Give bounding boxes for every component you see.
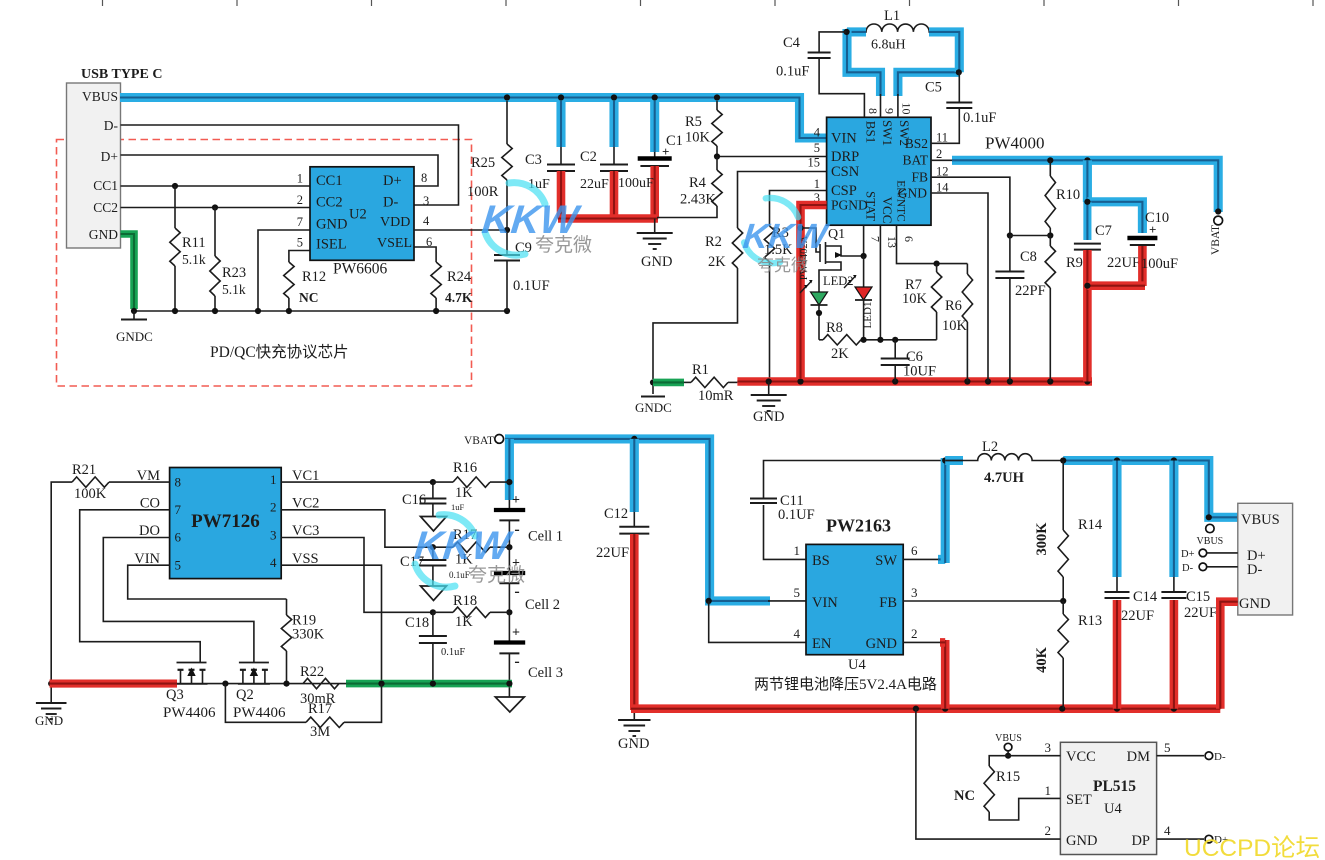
- wire GND red from connector: [1220, 602, 1238, 709]
- inductor L1 6.8uH: [847, 8, 938, 53]
- svg-text:D-: D-: [1182, 563, 1194, 574]
- resistor R9: [1045, 236, 1083, 382]
- resistor R8 2K: [819, 320, 937, 362]
- svg-text:C16: C16: [402, 492, 426, 508]
- wire blue SW1 branch: [847, 29, 881, 117]
- svg-text:10: 10: [900, 103, 914, 115]
- svg-text:CSN: CSN: [831, 164, 860, 180]
- svg-text:PW6606: PW6606: [333, 261, 388, 278]
- svg-text:R24: R24: [447, 269, 472, 285]
- capacitor C3 1uF: [525, 101, 575, 219]
- svg-text:10K: 10K: [685, 130, 711, 146]
- svg-text:+: +: [512, 493, 520, 508]
- svg-text:C12: C12: [604, 506, 628, 522]
- capacitor C18 0.1uF: [405, 612, 465, 683]
- svg-text:GND: GND: [618, 736, 649, 752]
- wire main ground rail (red): [737, 378, 1092, 384]
- svg-text:R25: R25: [471, 155, 495, 171]
- resistor R3 1.5K: [764, 225, 793, 379]
- resistor R11 5.1k: [170, 186, 206, 311]
- wire VC1 row: [281, 479, 512, 485]
- wire VSS route to pack minus: [281, 565, 381, 683]
- svg-text:R13: R13: [1078, 613, 1102, 629]
- wire EN/NTC pin6 to R7/R6: [897, 225, 968, 267]
- capacitor C8 22PF: [995, 236, 1045, 382]
- svg-text:VCC: VCC: [880, 197, 895, 224]
- svg-text:VCC: VCC: [1066, 749, 1096, 765]
- svg-text:R4: R4: [689, 175, 707, 191]
- svg-text:2.43K: 2.43K: [680, 192, 716, 208]
- svg-text:PW4000: PW4000: [985, 134, 1045, 153]
- wire GND pin2 red drop: [903, 640, 945, 709]
- svg-text:8: 8: [175, 474, 182, 489]
- capacitor C6 10UF: [881, 340, 936, 382]
- svg-text:3: 3: [911, 585, 918, 600]
- svg-text:22uF: 22uF: [580, 177, 609, 192]
- resistor R23 5.1k: [210, 208, 246, 312]
- svg-text:VBUS: VBUS: [82, 89, 118, 104]
- svg-text:3: 3: [270, 527, 277, 542]
- svg-text:R9: R9: [1066, 255, 1083, 271]
- svg-text:DRP: DRP: [831, 149, 859, 165]
- svg-text:D-: D-: [383, 195, 398, 211]
- svg-text:1K: 1K: [455, 485, 473, 501]
- resistor R10: [1045, 160, 1080, 238]
- wire STAT pin7 down: [861, 225, 867, 259]
- resistor R19 330K: [281, 599, 324, 684]
- capacitor C4 0.1uF (bootstrap BS1): [776, 32, 864, 117]
- svg-text:Q3: Q3: [166, 687, 184, 703]
- svg-text:CC2: CC2: [316, 195, 343, 211]
- svg-text:VC3: VC3: [292, 523, 319, 539]
- wire blue SW2 branch: [898, 72, 959, 117]
- svg-text:DO: DO: [139, 523, 160, 539]
- svg-text:6: 6: [902, 236, 916, 242]
- svg-text:2K: 2K: [708, 254, 726, 270]
- svg-text:11: 11: [936, 131, 948, 145]
- wire GND (green) from USB to GNDC: [121, 234, 135, 309]
- svg-text:FB: FB: [911, 170, 928, 185]
- svg-text:0.1uF: 0.1uF: [963, 110, 996, 126]
- wire VIN to R19: [128, 565, 287, 599]
- svg-text:-: -: [514, 653, 519, 670]
- capacitor C14 22UF: [1105, 461, 1158, 709]
- svg-text:10K: 10K: [942, 318, 968, 334]
- svg-text:STAT: STAT: [864, 191, 879, 221]
- svg-text:GND: GND: [35, 713, 63, 728]
- svg-text:22PF: 22PF: [1015, 283, 1046, 299]
- svg-text:C14: C14: [1133, 589, 1158, 605]
- svg-text:U4: U4: [848, 657, 866, 673]
- LED LED1 (red): [844, 256, 874, 340]
- svg-text:GND: GND: [641, 254, 672, 270]
- svg-text:D+: D+: [1181, 549, 1195, 560]
- svg-text:6.8uH: 6.8uH: [871, 38, 906, 53]
- svg-text:22UF: 22UF: [1184, 605, 1217, 621]
- resistor R22 30mR: [300, 664, 339, 707]
- svg-text:Cell 1: Cell 1: [528, 529, 563, 545]
- wire blue nub at L2 left: [945, 456, 963, 465]
- svg-text:D-: D-: [1214, 751, 1226, 763]
- svg-text:EN: EN: [812, 636, 832, 652]
- svg-text:10mR: 10mR: [698, 388, 734, 404]
- svg-text:GND: GND: [89, 227, 118, 242]
- wire VBUS net (blue bus): [120, 98, 827, 139]
- svg-text:4.7UH: 4.7UH: [984, 470, 1025, 486]
- wire DRP pin5 from R5/R4 node: [714, 153, 827, 159]
- wire PW6606 GND pin7 to ground rail: [258, 230, 310, 311]
- svg-text:2: 2: [936, 147, 942, 161]
- terminal VBUS for PL515: [995, 733, 1022, 759]
- svg-text:EN/NTC: EN/NTC: [895, 180, 907, 222]
- svg-text:22UF: 22UF: [596, 545, 629, 561]
- svg-text:D-: D-: [104, 118, 119, 133]
- op-chip U4 PW2163: [754, 516, 937, 694]
- svg-text:PW4406: PW4406: [163, 705, 216, 721]
- capacitor C10 100uF (polarized): [1084, 210, 1178, 289]
- svg-text:0.1UF: 0.1UF: [778, 507, 815, 523]
- resistor R1 10mR (shunt): [684, 362, 737, 404]
- svg-text:VBUS: VBUS: [1197, 536, 1224, 547]
- battery Cell 1: [494, 493, 563, 545]
- svg-text:R23: R23: [222, 265, 246, 281]
- svg-text:VIN: VIN: [831, 131, 857, 147]
- svg-text:PW7126: PW7126: [191, 511, 260, 532]
- svg-text:KKW: KKW: [412, 524, 515, 568]
- transistor Q1 PW4402A: [799, 227, 864, 280]
- svg-text:PW4406: PW4406: [233, 705, 286, 721]
- svg-text:GND: GND: [1066, 833, 1097, 849]
- svg-text:SET: SET: [1066, 792, 1092, 808]
- svg-text:3: 3: [1045, 740, 1052, 755]
- svg-text:1: 1: [814, 177, 820, 191]
- svg-text:GNDC: GNDC: [635, 400, 672, 415]
- svg-text:D+: D+: [383, 173, 402, 189]
- svg-text:5: 5: [297, 236, 303, 250]
- svg-text:+: +: [1149, 222, 1156, 237]
- svg-text:0.1UF: 0.1UF: [513, 278, 550, 294]
- op-chip U6 PL515: [1045, 740, 1172, 855]
- wire green sense link: [653, 379, 684, 387]
- watermark KKW 1: [480, 183, 592, 256]
- ground GND at rail: [751, 382, 787, 426]
- svg-text:6: 6: [175, 530, 182, 545]
- svg-text:R2: R2: [705, 234, 722, 250]
- battery Cell 3: [494, 612, 563, 683]
- svg-text:SW: SW: [875, 553, 897, 569]
- svg-text:1K: 1K: [455, 614, 473, 630]
- svg-text:3: 3: [423, 194, 429, 208]
- wire battery stack vertical (blue top): [505, 439, 514, 500]
- ground GND under C1: [637, 219, 673, 271]
- svg-text:R16: R16: [453, 460, 477, 476]
- wire D+ to PW6606 pin8: [121, 155, 439, 186]
- svg-text:R1: R1: [692, 362, 709, 378]
- svg-text:8: 8: [421, 171, 427, 185]
- terminal VBUS tap: [1197, 524, 1224, 547]
- capacitor C9 0.1UF: [494, 230, 550, 311]
- svg-text:CC1: CC1: [316, 173, 343, 189]
- transistor Q3 PW4406: [163, 663, 216, 722]
- svg-text:4.7K: 4.7K: [445, 290, 473, 305]
- capacitor C17 0.1uF: [400, 547, 470, 600]
- svg-text:U2: U2: [349, 207, 367, 223]
- capacitor C5 0.1uF (bootstrap BS2): [925, 72, 996, 143]
- svg-text:Q2: Q2: [236, 687, 254, 703]
- resistor R17b 3M: [225, 684, 381, 740]
- caption PD/QC快充协议芯片: [210, 343, 349, 361]
- svg-text:CC1: CC1: [93, 178, 118, 193]
- svg-text:0.1uF: 0.1uF: [441, 647, 465, 658]
- svg-text:PGND: PGND: [831, 198, 868, 213]
- svg-text:+: +: [662, 144, 669, 159]
- svg-text:R8: R8: [826, 320, 843, 336]
- watermark KKW 2: [741, 198, 832, 275]
- wire green battery minus link: [346, 681, 513, 687]
- svg-text:2: 2: [297, 193, 303, 207]
- svg-text:NC: NC: [954, 788, 975, 804]
- svg-text:PW2163: PW2163: [826, 516, 891, 536]
- op-chip U2 PW6606: [297, 167, 433, 278]
- svg-text:VBAT: VBAT: [1210, 225, 1222, 255]
- svg-text:BS: BS: [812, 553, 830, 569]
- wire CC1 to PW6606 pin1: [121, 183, 311, 189]
- svg-text:9: 9: [883, 108, 897, 114]
- svg-text:GND: GND: [753, 409, 784, 425]
- svg-text:VBUS: VBUS: [995, 733, 1022, 744]
- svg-text:VDD: VDD: [380, 215, 410, 230]
- junction dots on VBUS bus: [504, 94, 720, 100]
- resistor R18 1K: [433, 593, 510, 630]
- svg-text:C3: C3: [525, 152, 542, 168]
- svg-text:2K: 2K: [831, 346, 849, 362]
- ground triangle under Cell 3: [495, 684, 524, 712]
- svg-text:Q1: Q1: [828, 227, 845, 242]
- wire VC2 route: [281, 510, 512, 551]
- svg-text:C15: C15: [1186, 589, 1210, 605]
- capacitor C1 100uF (polarized): [618, 101, 683, 219]
- svg-text:R17: R17: [308, 701, 332, 717]
- svg-text:BAT: BAT: [902, 153, 928, 168]
- svg-text:KKW: KKW: [741, 217, 832, 256]
- LED LED2 (green): [800, 274, 854, 340]
- svg-text:Cell 2: Cell 2: [525, 597, 560, 613]
- wire VIN stub PW2163: [768, 600, 806, 602]
- svg-text:DM: DM: [1127, 749, 1150, 765]
- svg-text:0.1uF: 0.1uF: [449, 570, 470, 580]
- transistor Q2 PW4406: [233, 663, 286, 722]
- wire D- to PW6606 pin3: [121, 125, 459, 205]
- wire blue L1 right to C5 node: [929, 32, 962, 76]
- wire DO to Q2 gate: [103, 538, 254, 663]
- wire blue BAT branch to C7/C10: [1084, 160, 1142, 240]
- svg-text:R21: R21: [72, 462, 96, 478]
- svg-text:Cell 3: Cell 3: [528, 665, 563, 681]
- terminal D+ input: [1181, 549, 1238, 560]
- capacitor C11 0.1UF + BS loop: [750, 461, 944, 560]
- svg-text:VSEL: VSEL: [377, 236, 412, 251]
- svg-text:15: 15: [808, 156, 821, 170]
- wire SW blue riser: [903, 457, 948, 563]
- capacitor C16 1uF: [402, 482, 465, 531]
- ground GNDC: [116, 311, 153, 344]
- resistor R4 2.43K: [657, 157, 722, 218]
- wire FB row: [903, 598, 1066, 604]
- wire CC2 to PW6606 pin2: [121, 204, 311, 210]
- svg-text:22UF: 22UF: [1107, 255, 1140, 271]
- svg-text:1: 1: [297, 172, 303, 186]
- svg-text:330K: 330K: [292, 627, 325, 643]
- svg-text:C18: C18: [405, 615, 429, 631]
- resistor R25 100R: [467, 101, 512, 230]
- svg-text:R22: R22: [300, 664, 324, 680]
- connector J2 VBUS output: [1238, 503, 1293, 615]
- svg-text:100uF: 100uF: [618, 176, 654, 191]
- svg-text:300K: 300K: [1034, 522, 1050, 556]
- wire PW6606 VDD pin4 to R25 node: [414, 227, 510, 233]
- svg-text:DP: DP: [1131, 833, 1150, 849]
- capacitor C2 22uF: [580, 101, 628, 219]
- svg-text:4: 4: [270, 555, 277, 570]
- svg-text:R11: R11: [182, 235, 206, 251]
- svg-text:7: 7: [297, 215, 303, 229]
- svg-text:夸克微: 夸克微: [757, 256, 808, 275]
- svg-text:4: 4: [1164, 823, 1171, 838]
- svg-text:USB TYPE C: USB TYPE C: [81, 67, 162, 82]
- wire ground rail (GNDC net): [131, 308, 510, 314]
- svg-text:UCCPD论坛: UCCPD论坛: [1184, 834, 1320, 860]
- svg-text:R5: R5: [685, 114, 702, 130]
- terminal VBAT (battery stack top): [464, 435, 513, 448]
- wire B- bottom rail segments: [50, 681, 349, 687]
- svg-text:5: 5: [794, 585, 801, 600]
- resistor R24 4.7K: [414, 247, 473, 311]
- resistor R12 NC: [284, 251, 326, 312]
- wire blue VBUS output: [1060, 457, 1238, 520]
- svg-text:5: 5: [175, 557, 182, 572]
- svg-text:L2: L2: [982, 439, 998, 455]
- svg-text:+: +: [512, 626, 520, 641]
- wire VC3 route: [281, 538, 512, 616]
- wire VCC pin13 down: [877, 225, 883, 343]
- svg-text:夸克微: 夸克微: [468, 564, 525, 586]
- svg-text:2: 2: [911, 626, 918, 641]
- wire PGND pin3 (red) down to rail: [797, 205, 826, 379]
- capacitor C7 22UF: [1074, 223, 1140, 382]
- terminal VBAT: [1210, 216, 1223, 255]
- node GNDC (sense ground): [635, 379, 672, 415]
- wire CSP pin1 to R3: [770, 191, 827, 227]
- svg-text:6: 6: [426, 235, 432, 249]
- resistor R2 2K: [653, 228, 743, 379]
- svg-text:5.1k: 5.1k: [182, 252, 206, 267]
- resistor R21 100K: [51, 462, 169, 684]
- wire DP to D+ terminal: [1157, 834, 1229, 846]
- svg-text:3M: 3M: [310, 724, 330, 740]
- resistor R17 1K: [433, 527, 510, 568]
- ruler tick marks: [103, 0, 1314, 6]
- battery Cell 2: [494, 547, 560, 613]
- svg-text:CC2: CC2: [93, 200, 118, 215]
- svg-text:R6: R6: [945, 298, 962, 314]
- capacitor C12 22UF: [596, 439, 649, 710]
- svg-text:D-: D-: [1247, 562, 1262, 578]
- ground GND under C12: [618, 706, 651, 752]
- svg-text:D+: D+: [101, 149, 118, 164]
- node L1 left junction: [844, 29, 850, 35]
- resistor R5 10K: [685, 101, 722, 157]
- svg-text:C7: C7: [1095, 223, 1112, 239]
- wire BAT output (blue) to VBAT terminal: [931, 157, 1221, 214]
- svg-text:FB: FB: [879, 595, 897, 611]
- svg-text:R15: R15: [996, 769, 1020, 785]
- svg-text:4: 4: [794, 626, 801, 641]
- svg-text:100uF: 100uF: [1141, 256, 1178, 272]
- wire VCC row: [1008, 755, 1060, 757]
- footer text UCCPD论坛: [1184, 834, 1320, 860]
- resistor R16 1K: [433, 460, 510, 501]
- svg-text:NC: NC: [299, 290, 319, 305]
- svg-text:22UF: 22UF: [1121, 608, 1154, 624]
- svg-text:-: -: [514, 521, 519, 538]
- resistor R13 40K: [1034, 601, 1102, 709]
- svg-text:VIN: VIN: [812, 595, 838, 611]
- svg-text:VBAT: VBAT: [464, 435, 494, 447]
- svg-text:L1: L1: [884, 8, 900, 24]
- svg-text:C2: C2: [580, 149, 597, 165]
- svg-text:10K: 10K: [902, 291, 928, 307]
- resistor R7 10K: [902, 264, 942, 340]
- svg-text:PD/QC快充协议芯片: PD/QC快充协议芯片: [210, 343, 349, 361]
- svg-text:BS1: BS1: [864, 121, 879, 143]
- svg-text:两节锂电池降压5V2.4A电路: 两节锂电池降压5V2.4A电路: [754, 676, 937, 693]
- svg-text:R18: R18: [453, 593, 477, 609]
- wire GND of PL515 to rail: [916, 709, 1061, 839]
- svg-text:GND: GND: [316, 217, 347, 233]
- svg-text:5.1k: 5.1k: [222, 282, 246, 297]
- svg-text:LED1: LED1: [862, 302, 874, 329]
- svg-text:U4: U4: [1104, 801, 1122, 817]
- resistor R6 10K: [942, 264, 973, 382]
- svg-text:6: 6: [911, 543, 918, 558]
- wire DM to D- terminal: [1157, 751, 1226, 763]
- svg-text:1: 1: [270, 472, 277, 487]
- svg-text:ISEL: ISEL: [316, 237, 347, 253]
- svg-text:1uF: 1uF: [451, 502, 465, 512]
- resistor R15 NC: [954, 756, 1060, 820]
- wire GND pin14 to rail: [931, 193, 988, 382]
- wire VBAT blue feed to PW2163: [505, 436, 770, 604]
- connector J1 USB TYPE C: [67, 67, 163, 248]
- svg-text:1: 1: [1045, 783, 1052, 798]
- wire EN tie to VIN: [709, 601, 806, 643]
- svg-text:2: 2: [270, 500, 277, 515]
- svg-text:R10: R10: [1056, 187, 1080, 203]
- svg-text:40K: 40K: [1034, 646, 1050, 673]
- svg-text:C5: C5: [925, 80, 942, 96]
- inductor L2 4.7UH: [945, 439, 1063, 486]
- svg-text:1: 1: [794, 543, 801, 558]
- op-chip U3 PW4000: [808, 103, 1045, 249]
- op-chip U5 PW7126: [134, 468, 319, 579]
- svg-text:PL515: PL515: [1093, 778, 1136, 795]
- svg-text:SW1: SW1: [880, 120, 895, 146]
- wire CSN pin15 to R2: [738, 172, 827, 229]
- svg-text:VBUS: VBUS: [1241, 512, 1280, 528]
- svg-text:C8: C8: [1020, 249, 1037, 265]
- watermark KKW 3: [412, 515, 525, 588]
- svg-text:4: 4: [814, 126, 821, 140]
